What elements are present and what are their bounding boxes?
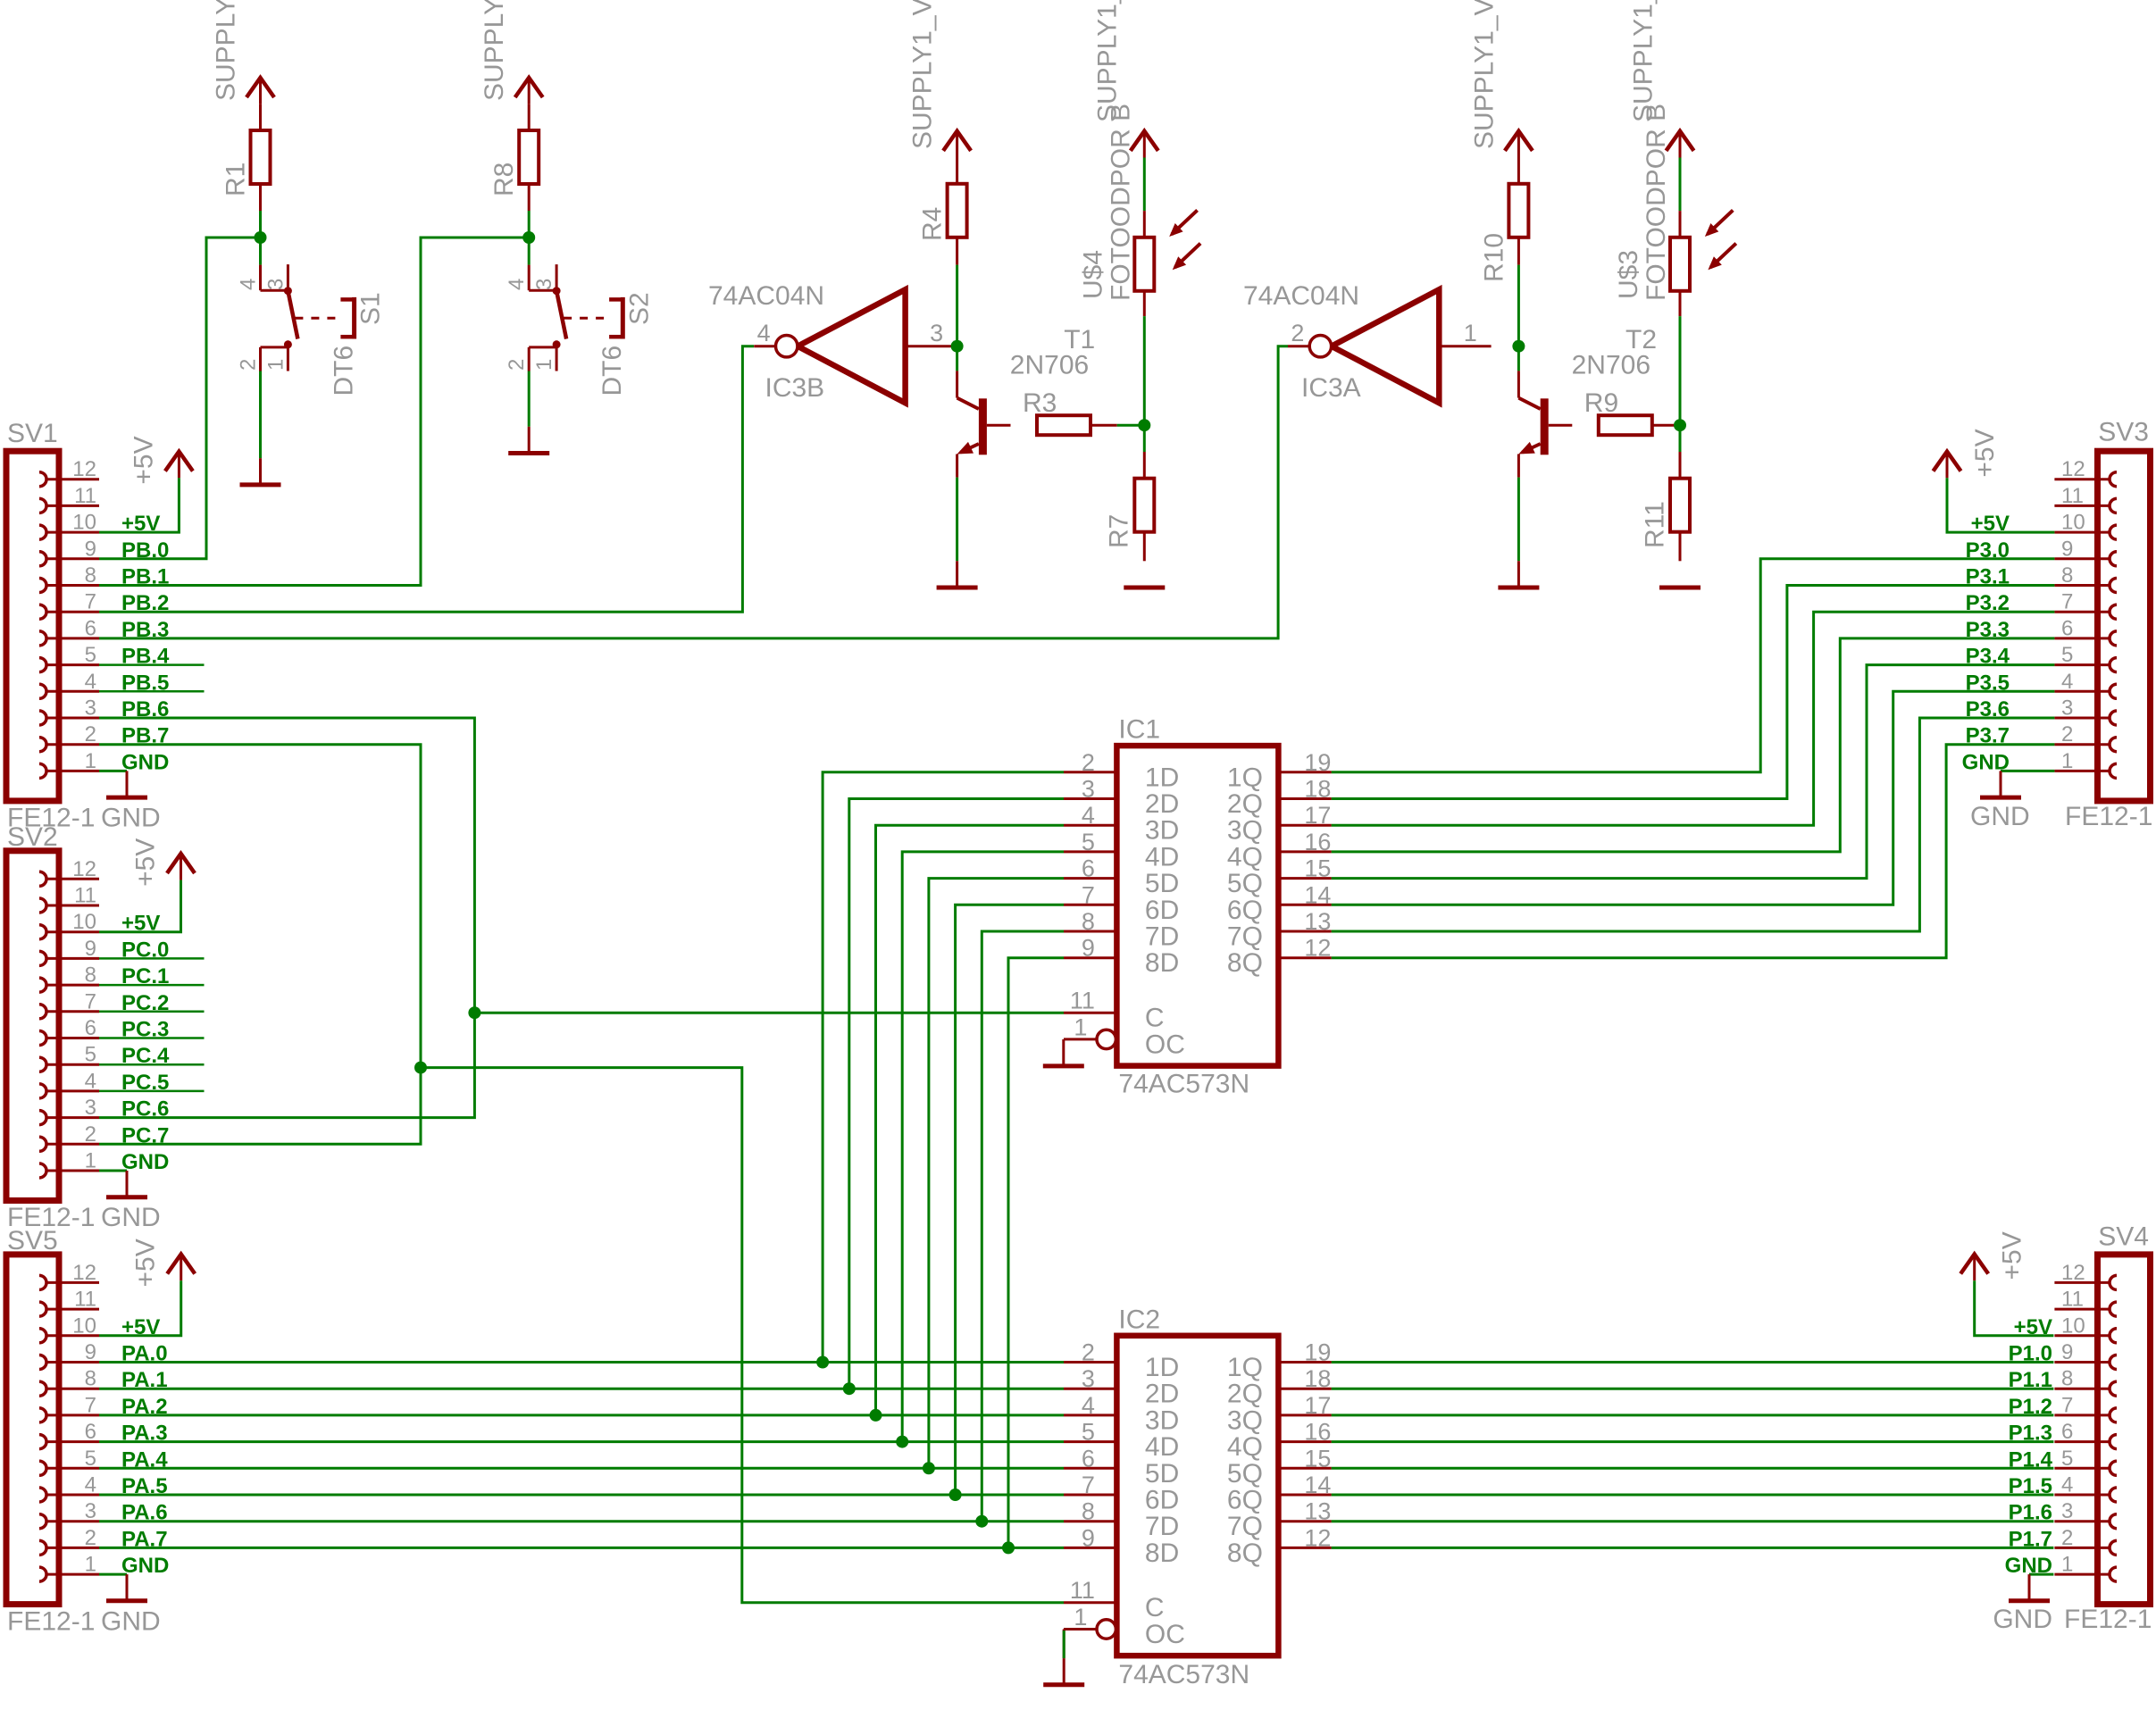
svg-text:5: 5 [85,1043,96,1067]
connector SV3 body [2098,451,2151,801]
svg-text:8: 8 [85,1367,96,1391]
resistor R3 [1037,415,1117,435]
label R1 [221,163,250,196]
svg-text:12: 12 [72,457,96,481]
svg-text:GND: GND [121,1554,169,1578]
svg-text:1: 1 [2061,1553,2073,1577]
svg-text:16: 16 [1304,1419,1331,1446]
wire node to R11 [1679,425,1682,452]
net label SUPPLY1_VCC (U$3) [1628,0,1658,122]
svg-text:74AC04N: 74AC04N [708,281,824,311]
svg-text:12: 12 [1304,935,1331,962]
+5V label [131,1238,161,1287]
label S1 [356,292,386,325]
svg-text:17: 17 [1304,802,1331,829]
svg-text:S2: S2 [624,292,654,325]
value label FOTOODPOR B (U$3) [1642,104,1671,301]
switch S1 pin numbers [237,279,288,371]
svg-text:4D: 4D [1145,1432,1179,1462]
svg-text:9: 9 [1082,935,1095,962]
svg-text:13: 13 [1304,1498,1331,1525]
SV5 net labels [121,1315,169,1578]
svg-text:3: 3 [85,696,96,721]
wire P3.1 [1332,586,2055,799]
svg-text:1D: 1D [1145,1353,1179,1382]
+5V supply symbol [167,1255,195,1281]
wire SV5 +5V [99,1280,181,1336]
wire P1.5 [1332,1494,2054,1497]
wire PB.6 / PC.6 [99,718,474,1118]
svg-text:11: 11 [74,884,96,908]
wire P1.4 [1332,1467,2054,1470]
supply arrow R1 net [247,78,274,104]
svg-text:4: 4 [505,279,529,290]
label FE12-1 GND (SV5) [7,1606,161,1636]
svg-text:SUPPLY1_VCC: SUPPLY1_VCC [908,0,938,149]
svg-text:4: 4 [1082,802,1095,829]
label R9 [1584,388,1618,418]
label S2 [624,292,654,325]
wire PB.6 to IC1 C [474,1012,1064,1014]
label GND FE12-1 (SV3) [1970,802,2152,831]
svg-text:6Q: 6Q [1227,896,1263,925]
wire SV5 GND [99,1573,127,1576]
svg-text:1: 1 [1464,320,1477,346]
svg-text:R9: R9 [1584,388,1618,418]
wire IC1 6D [956,905,1064,1495]
svg-text:2Q: 2Q [1227,789,1263,819]
svg-text:3D: 3D [1145,816,1179,846]
label T1 [1064,325,1095,354]
wire IC1 8D [1008,958,1064,1548]
inverter IC3A bubble [1309,336,1331,357]
supply arrow R4 net [943,131,971,158]
svg-text:5: 5 [1082,829,1095,855]
inverter IC3B triangle [798,289,906,403]
IC IC2 C pin number [1070,1577,1095,1604]
wire P1.7 [1332,1547,2054,1549]
svg-text:74AC04N: 74AC04N [1243,281,1359,311]
wire PB.7 to IC2 C [421,1068,1064,1603]
IC IC1 OC label [1145,1030,1185,1059]
ground IC1 OC [1043,1063,1084,1068]
svg-text:1: 1 [85,1149,96,1173]
svg-text:5: 5 [1082,1419,1095,1446]
svg-text:FOTOODPOR B: FOTOODPOR B [1642,104,1671,301]
svg-text:6: 6 [85,616,96,640]
inverter IC3B bubble [776,336,798,357]
label IC3A [1301,373,1361,403]
svg-text:5Q: 5Q [1227,869,1263,898]
wire T1 emitter to ground [956,478,958,562]
SV2 pin numbers [72,857,96,1173]
junction node R8/switch [522,231,535,244]
wire PC.5 stub [99,1090,205,1093]
svg-text:7D: 7D [1145,1512,1179,1541]
wire R9 to divider [1679,424,1681,427]
wire SV4 GND [2029,1573,2053,1576]
wire SV4 +5V [1975,1280,2054,1336]
IC IC1 C pin [1064,1012,1116,1014]
svg-text:1: 1 [2061,749,2073,773]
value label FOTOODPOR B (U$4) [1106,104,1135,301]
IC IC2 OC pin number [1074,1604,1087,1630]
svg-text:5D: 5D [1145,869,1179,898]
svg-text:3: 3 [930,320,943,346]
SV3 pin numbers [2061,457,2085,773]
svg-text:SV5: SV5 [7,1226,58,1255]
wire SV1 GND [99,770,127,772]
svg-text:7D: 7D [1145,922,1179,952]
junction node PA.7 [1002,1541,1015,1554]
svg-text:FE12-1: FE12-1 [2065,802,2152,831]
SV1 net labels [121,512,170,774]
svg-text:13: 13 [1304,908,1331,935]
svg-text:5: 5 [2061,1447,2073,1471]
label R11 [1640,501,1669,548]
svg-text:9: 9 [85,1340,96,1364]
svg-text:12: 12 [2061,1261,2085,1285]
transistor T2 base bar [1541,398,1549,455]
wire P1.1 [1332,1388,2054,1390]
wire IC2 OC ground net [1063,1630,1065,1658]
label U$4 [1078,250,1107,299]
svg-text:IC1: IC1 [1118,715,1160,745]
svg-text:R8: R8 [489,163,519,196]
wire P3.2 [1332,612,2055,825]
resistor R11 [1670,452,1690,561]
photoresistor U$4 light arrows [1169,210,1200,270]
inverter IC3B input pin [754,345,775,347]
wire PB.2 [99,346,754,613]
IC IC2 OC pin [1064,1628,1097,1630]
svg-text:14: 14 [1304,881,1331,908]
svg-text:2N706: 2N706 [1572,350,1650,379]
svg-text:3Q: 3Q [1227,816,1263,846]
supply arrow R10 net [1505,131,1533,158]
net label SUPPLY1_VCC (U$4) [1093,0,1123,122]
svg-text:2: 2 [85,1526,96,1550]
label DT6 (S1) [329,346,358,396]
wire PB.5 stub [99,690,205,693]
svg-text:R10: R10 [1479,233,1508,282]
+5V supply symbol [1960,1255,1988,1281]
resistor R9 [1599,415,1679,435]
svg-text:10: 10 [72,910,96,934]
svg-text:4: 4 [1082,1392,1095,1419]
+5V label [129,436,158,484]
wire P1.6 [1332,1520,2054,1522]
svg-text:4: 4 [85,1473,96,1497]
svg-text:8: 8 [1082,1498,1095,1525]
wire PA.3 [99,1440,1064,1443]
IC IC2 body [1116,1336,1278,1655]
svg-text:GND: GND [1993,1605,2052,1634]
svg-text:GND: GND [121,1150,169,1174]
IC IC2 C label [1145,1593,1165,1622]
wire IC1 2D [849,799,1064,1389]
svg-text:6D: 6D [1145,1486,1179,1515]
svg-text:12: 12 [72,1261,96,1285]
svg-text:+5V: +5V [131,1238,161,1287]
IC IC2 OC label [1145,1620,1185,1649]
svg-text:2: 2 [85,722,96,746]
wire U$3 to node [1679,316,1682,425]
wire PA.1 [99,1388,1064,1390]
wire PB.0 [99,238,261,559]
wire PC.7 [99,1068,421,1145]
svg-text:DT6: DT6 [329,346,358,396]
svg-text:7Q: 7Q [1227,1512,1263,1541]
wire IC1 4D [902,852,1064,1442]
svg-text:10: 10 [72,1314,96,1338]
ground SV2 [106,1171,147,1197]
wire P3.3 [1332,638,2055,852]
svg-text:OC: OC [1145,1030,1185,1059]
label IC2 [1118,1305,1160,1334]
connector SV4 body [2098,1255,2151,1605]
transistor T1 base pin [987,424,1011,427]
wire R1 to switch [259,211,262,265]
wire R4 to T1 [956,265,958,371]
resistor R8 [519,104,539,211]
label R10 [1479,233,1508,282]
inverter IC3A triangle [1332,289,1440,403]
svg-text:SV4: SV4 [2098,1222,2149,1252]
junction node T2 base drive [1512,340,1525,353]
value label 74AC573N (IC1) [1118,1070,1249,1099]
svg-text:3: 3 [1082,1365,1095,1392]
wire supply to U$4 [1143,158,1146,212]
resistor R7 [1134,452,1154,561]
svg-text:R11: R11 [1640,501,1669,548]
resistor R4 [948,158,967,265]
wire PA.0 [99,1361,1064,1364]
wire PC.2 stub [99,1011,205,1013]
svg-text:9: 9 [85,937,96,961]
label 2N706 (T1) [1010,350,1089,379]
svg-text:4Q: 4Q [1227,1432,1263,1462]
wire SV2 +5V [99,880,181,932]
svg-text:2Q: 2Q [1227,1380,1263,1409]
+5V label [1998,1231,2027,1280]
IC IC2 pin names [1145,1353,1263,1568]
wire IC1 5D [929,879,1064,1469]
svg-text:R4: R4 [918,207,948,241]
wire PA.4 [99,1467,1064,1470]
svg-text:2: 2 [85,1122,96,1147]
svg-text:10: 10 [2061,1314,2085,1338]
photoresistor U$3 [1670,211,1690,316]
switch S2 pins [529,264,556,371]
IC IC1 C label [1145,1004,1165,1033]
inverter IC3A pin numbers [1291,320,1476,346]
wire PC.4 stub [99,1063,205,1066]
svg-text:1: 1 [85,749,96,773]
svg-text:4: 4 [85,670,96,694]
svg-text:SV1: SV1 [7,419,58,448]
svg-text:6Q: 6Q [1227,1486,1263,1515]
value label 74AC573N (IC2) [1118,1660,1249,1689]
ground T2 [1498,561,1539,588]
label 74AC04N (IC3B) [708,281,824,311]
connector SV5 pins [39,1275,99,1581]
svg-text:7: 7 [2061,1393,2073,1417]
svg-text:17: 17 [1304,1392,1331,1419]
transistor T2 emitter [1518,442,1540,478]
inverter IC3B output pin [906,345,957,347]
label 74AC04N (IC3A) [1243,281,1359,311]
svg-text:3D: 3D [1145,1405,1179,1435]
IC IC1 pin names [1145,763,1263,978]
svg-text:GND: GND [101,1203,161,1232]
wire T2 emitter to ground [1517,478,1520,562]
label U$3 [1614,250,1643,299]
svg-text:R7: R7 [1105,514,1134,548]
wire S1 to ground [259,371,262,459]
connector SV1 pins [39,472,99,779]
IC IC2 pin numbers [1082,1339,1332,1552]
svg-text:9: 9 [85,537,96,561]
net label SUPPLY1_VCC (R10) [1469,0,1499,149]
svg-text:2: 2 [2061,722,2073,746]
ground SV3 [1980,771,2021,797]
label R7 [1105,514,1134,548]
switch S2 blade [556,291,566,339]
svg-text:1Q: 1Q [1227,763,1263,792]
wire IC1 OC to ground [1062,1039,1065,1066]
svg-text:9: 9 [2061,537,2073,561]
svg-text:FE12-1: FE12-1 [7,1606,95,1636]
wire PA.2 [99,1414,1064,1416]
wire IC1 7D [982,931,1064,1522]
svg-text:DT6: DT6 [597,346,627,396]
label SV2 [7,822,58,852]
svg-text:2: 2 [237,359,261,371]
IC IC2 OC bubble [1097,1620,1116,1639]
svg-text:10: 10 [2061,511,2085,535]
wire PC.3 stub [99,1037,205,1039]
svg-text:14: 14 [1304,1472,1331,1498]
+5V supply symbol [167,854,195,880]
transistor T1 base bar [979,398,987,455]
svg-text:11: 11 [1070,1577,1095,1604]
supply arrow U$4 net [1131,131,1158,158]
svg-text:74AC573N: 74AC573N [1118,1660,1249,1689]
svg-text:4Q: 4Q [1227,842,1263,872]
switch S1 contacts [284,287,292,348]
svg-text:2D: 2D [1145,1380,1179,1409]
label GND FE12-1 (SV4) [1993,1605,2152,1634]
IC IC1 C pin number [1070,988,1095,1014]
svg-text:1: 1 [263,359,288,371]
svg-text:1D: 1D [1145,763,1179,792]
svg-text:8: 8 [2061,1367,2073,1391]
switch S1 pins [261,264,288,371]
svg-text:2: 2 [1082,1339,1095,1366]
svg-text:1: 1 [85,1553,96,1577]
wire PB.3 [99,346,1288,638]
svg-text:S1: S1 [356,292,386,325]
svg-text:12: 12 [1304,1524,1331,1551]
wire P1.0 [1332,1361,2054,1364]
wire P3.0 [1332,559,2055,772]
svg-text:SUPPLY1_VCC: SUPPLY1_VCC [480,0,509,101]
svg-text:3: 3 [532,279,556,290]
label R4 [918,207,948,241]
svg-text:5D: 5D [1145,1459,1179,1489]
svg-text:GND: GND [101,1606,161,1636]
svg-text:1: 1 [1074,1604,1087,1630]
svg-text:8: 8 [85,563,96,588]
svg-text:11: 11 [1070,988,1095,1014]
svg-text:6: 6 [1082,1445,1095,1472]
transistor T1 collector [957,371,979,409]
junction node PA.6 [975,1515,988,1528]
ground S2 [508,427,549,454]
wire PA.6 [99,1520,1064,1522]
ground SV5 [106,1574,147,1601]
svg-text:74AC573N: 74AC573N [1118,1070,1249,1099]
svg-text:6: 6 [85,1016,96,1040]
IC IC1 OC bubble [1097,1030,1116,1048]
svg-text:IC3A: IC3A [1301,373,1361,403]
ground IC2 OC [1043,1658,1084,1685]
svg-text:7: 7 [85,590,96,614]
wire PB.1 [99,238,529,586]
label SV4 [2098,1222,2149,1252]
label SV5 [7,1226,58,1255]
wire SV2 GND [99,1170,127,1172]
svg-text:R3: R3 [1023,388,1057,418]
svg-text:2: 2 [1291,320,1304,346]
wire P1.3 [1332,1440,2054,1443]
svg-text:9: 9 [2061,1340,2073,1364]
wire IC1 1D [823,772,1064,1363]
IC IC1 OC pin number [1074,1013,1087,1040]
svg-text:3: 3 [2061,1499,2073,1523]
wire node to R7 [1143,425,1146,452]
SV1 pin numbers [72,457,96,773]
svg-text:2: 2 [1082,749,1095,776]
svg-text:5: 5 [2061,643,2073,667]
svg-text:10: 10 [72,511,96,535]
supply arrow U$3 net [1667,131,1694,158]
svg-text:8Q: 8Q [1227,1539,1263,1568]
photoresistor U$3 light arrows [1705,210,1736,270]
svg-text:FE12-1: FE12-1 [2064,1605,2152,1634]
svg-text:SUPPLY1_VCC: SUPPLY1_VCC [1469,0,1499,149]
connector SV5 body [6,1255,59,1605]
net label SUPPLY1_VCC (R1) [212,0,241,101]
switch S2 contacts [553,287,561,348]
wire SV3 +5V [1947,478,2054,532]
inverter IC3A input pin [1288,345,1309,347]
svg-text:R1: R1 [221,163,250,196]
svg-text:GND: GND [101,804,161,833]
svg-text:+5V: +5V [131,838,161,887]
wire P3.4 [1332,665,2055,879]
wire PB.4 stub [99,663,205,666]
+5V supply symbol [165,452,193,479]
svg-text:2N706: 2N706 [1010,350,1089,379]
svg-text:IC3B: IC3B [765,373,825,403]
junction node R1/switch [255,231,267,244]
svg-text:SV2: SV2 [7,822,58,852]
label SV3 [2098,418,2149,447]
resistor R10 [1508,158,1528,265]
wire P3.7 [1332,745,2055,958]
